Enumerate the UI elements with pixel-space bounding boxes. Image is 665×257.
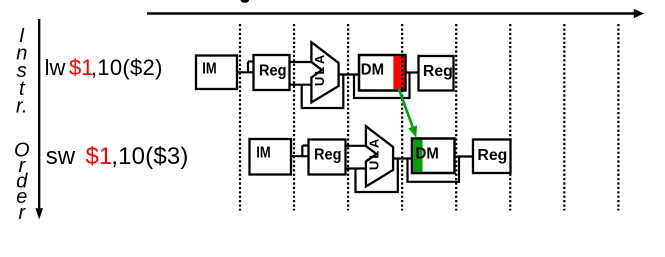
svg-text:A: A <box>367 138 382 148</box>
stage box Reg2 <box>309 140 346 175</box>
wire DM1 to Reg1wb <box>406 71 419 73</box>
stage box DM2 <box>412 139 455 174</box>
wire ALU1 output to DM1 <box>339 73 360 75</box>
wire loop under DM2 <box>408 157 460 182</box>
wire loop under ALU2 <box>356 159 398 193</box>
stage box IM2 <box>250 139 292 175</box>
stage box Reg1 <box>254 55 290 90</box>
clock cycle boundary dotted line 7 <box>563 24 565 211</box>
ALU2 shape <box>366 126 393 186</box>
green forwarding arrow from red stripe (lw DM) to green stripe (sw DM) <box>399 89 417 138</box>
wire DM2 to Reg2wb <box>455 155 474 157</box>
svg-text:Reg: Reg <box>259 63 287 80</box>
cropped title text descender remnant <box>241 0 249 3</box>
label ALU2 (rotated letters) <box>367 138 382 170</box>
clock cycle boundary dotted line 4 <box>401 24 403 211</box>
svg-text:sw$1,10($3): sw$1,10($3) <box>46 143 189 170</box>
clock cycle boundary dotted line 1 <box>239 24 241 211</box>
axis label "Instr." (vertical stack, italic) <box>16 25 27 117</box>
svg-text:DM: DM <box>361 62 384 79</box>
red highlight stripe (DM write half of lw) <box>393 56 404 89</box>
svg-text:Reg: Reg <box>477 147 507 164</box>
svg-text:DM: DM <box>416 146 439 163</box>
label ALU1 (rotated letters) <box>312 54 327 86</box>
clock cycle boundary dotted line 3 <box>347 24 349 211</box>
svg-text:Reg: Reg <box>423 63 453 80</box>
svg-text:L: L <box>312 67 327 75</box>
clock cycle boundary dotted line 6 <box>509 24 511 211</box>
wire IM2 to Reg2 (step connector) <box>291 146 309 157</box>
axis label "Order" (vertical stack, italic) <box>14 139 30 223</box>
wire ALU2 output to DM2 <box>393 157 413 159</box>
svg-text:U: U <box>312 77 327 86</box>
svg-text:lw$1,10($2): lw$1,10($2) <box>45 55 163 80</box>
clock cycle boundary dotted line 8 <box>617 24 619 211</box>
stage box DM1 <box>359 55 406 91</box>
svg-text:U: U <box>367 161 382 170</box>
clock cycle boundary dotted line 5 <box>455 24 457 211</box>
stage box Reg1wb <box>419 56 454 91</box>
time axis arrow <box>147 9 644 18</box>
wire Reg1 to ALU1 upper input <box>290 61 313 63</box>
svg-text:Reg: Reg <box>314 147 342 164</box>
svg-text:IM: IM <box>256 145 270 162</box>
clock cycle boundary dotted line 2 <box>293 24 295 211</box>
dotted cycle line over red stripe <box>401 56 403 90</box>
svg-text:IM: IM <box>202 61 216 78</box>
DM1 border redraw <box>359 55 406 91</box>
wire loop under DM1 <box>354 73 410 99</box>
stage box Reg2wb <box>473 140 511 174</box>
svg-text:L: L <box>367 151 382 159</box>
svg-text:r.: r. <box>16 95 27 117</box>
DM2 border redraw <box>412 139 455 174</box>
instruction order axis arrow (vertical) <box>35 19 43 220</box>
wire Reg2 to ALU2 lower input <box>346 167 367 169</box>
wire loop under ALU1 <box>302 75 344 109</box>
green highlight stripe (DM read half of sw) <box>413 140 422 172</box>
wire Reg1 to ALU1 lower input <box>290 84 313 86</box>
ALU1 shape <box>311 42 338 102</box>
wire Reg2 to ALU2 upper input <box>346 145 367 147</box>
svg-text:A: A <box>312 54 327 64</box>
wire IM1 to Reg1 (step connector) <box>237 62 254 73</box>
stage box IM1 <box>196 56 237 90</box>
